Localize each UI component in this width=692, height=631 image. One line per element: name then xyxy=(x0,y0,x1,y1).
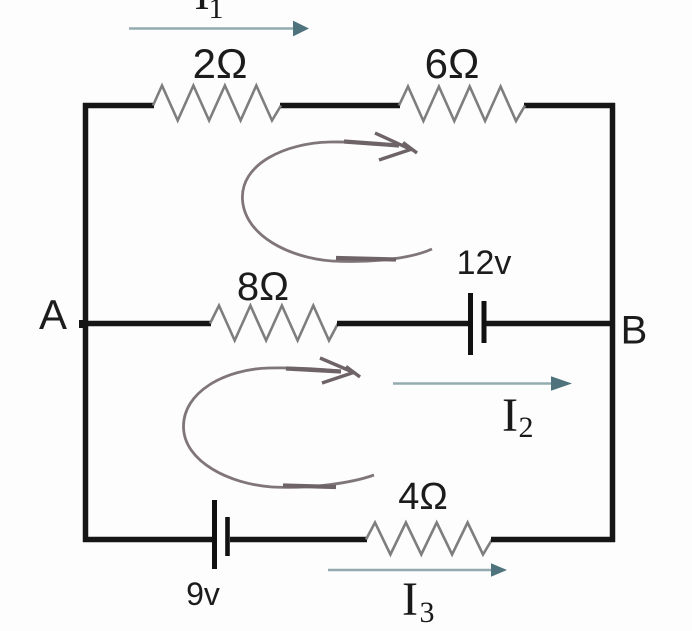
wire middle center segment xyxy=(337,321,468,327)
svg-text:1: 1 xyxy=(209,0,224,25)
wire middle left segment xyxy=(83,321,211,327)
battery V1 12v short plate xyxy=(482,301,487,343)
svg-text:3: 3 xyxy=(420,596,435,629)
svg-text:9v: 9v xyxy=(186,576,220,612)
svg-text:2: 2 xyxy=(519,411,534,444)
wire top left segment xyxy=(83,103,154,109)
current arrow I2 shaft xyxy=(393,382,552,384)
svg-text:I: I xyxy=(194,0,209,19)
node A junction dot xyxy=(79,320,88,328)
svg-text:I: I xyxy=(402,573,418,626)
wire middle right segment xyxy=(487,321,616,327)
current arrow I3 shaft xyxy=(328,569,492,571)
wire bottom middle segment xyxy=(230,537,367,543)
mesh loop 2 top overdraw xyxy=(286,369,341,372)
svg-text:I: I xyxy=(502,389,518,442)
svg-text:2Ω: 2Ω xyxy=(193,40,248,87)
battery V1 12v long plate xyxy=(468,293,473,355)
wire left vertical A-side xyxy=(83,103,89,542)
resistor R_2ohm zigzag xyxy=(153,86,281,121)
wire bottom left segment xyxy=(83,537,212,543)
resistor R_4ohm zigzag xyxy=(366,523,492,555)
svg-text:6Ω: 6Ω xyxy=(425,40,480,87)
svg-text:12v: 12v xyxy=(457,244,512,282)
resistor R_8ohm zigzag xyxy=(210,306,338,341)
mesh loop 1 top overdraw xyxy=(344,142,399,146)
svg-text:A: A xyxy=(39,291,67,338)
mesh loop 1 arrowhead xyxy=(375,133,417,160)
current arrow I3 head xyxy=(491,563,507,576)
mesh loop 1 curve xyxy=(242,142,432,262)
wire top middle segment xyxy=(280,103,400,109)
mesh loop 1 bottom overdraw xyxy=(336,258,396,260)
mesh loop 2 curve xyxy=(183,368,374,488)
current arrow I2 head xyxy=(551,376,572,390)
wire bottom right segment xyxy=(491,537,615,543)
svg-text:8Ω: 8Ω xyxy=(237,265,289,309)
wire top right segment xyxy=(524,103,615,109)
resistor R_6ohm zigzag xyxy=(399,87,525,122)
mesh loop 2 bottom overdraw xyxy=(283,486,336,488)
svg-text:B: B xyxy=(621,309,648,353)
wire right vertical B-side xyxy=(610,103,616,542)
battery V2 9v short plate xyxy=(225,517,230,556)
battery V2 9v long plate xyxy=(212,500,217,569)
svg-text:4Ω: 4Ω xyxy=(398,476,448,518)
current arrow I1 head xyxy=(293,21,309,37)
current arrow I1 shaft xyxy=(129,27,295,29)
mesh loop 2 arrowhead xyxy=(320,358,360,383)
